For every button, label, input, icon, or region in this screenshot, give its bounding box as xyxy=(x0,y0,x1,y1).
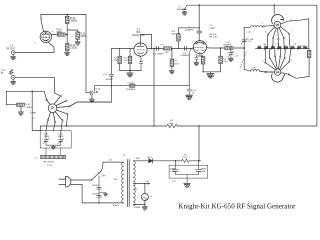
potentiometer R-14 xyxy=(10,69,13,74)
resistor R-6 xyxy=(178,28,199,34)
wire: S-1B stubs up to row xyxy=(265,49,291,62)
filter box C-20 xyxy=(169,165,208,178)
ground under R-11 xyxy=(77,39,79,41)
svg-text:750MMFD: 750MMFD xyxy=(223,45,232,47)
node: filter taps xyxy=(175,160,177,162)
ground grid leak xyxy=(186,95,193,99)
capacitor C-13A xyxy=(130,84,135,87)
AC plug xyxy=(66,176,71,187)
AF jack node bars xyxy=(90,91,92,95)
tube V-2 grids xyxy=(195,46,204,48)
resistor on row end xyxy=(307,50,311,57)
S-2 spoke tip circles xyxy=(46,99,48,101)
resistor R-2 zigzag xyxy=(167,124,178,127)
node: C-12 ground wire crossing xyxy=(111,85,113,87)
ground under J-2 xyxy=(12,79,14,81)
svg-text:.047MFD: .047MFD xyxy=(92,193,100,195)
diode SE-1 xyxy=(149,159,153,163)
wire: rail to B+ node xyxy=(198,126,200,161)
ground under J-1 xyxy=(12,55,14,57)
grid return vertical xyxy=(189,48,193,86)
trimmer C-17A xyxy=(242,40,246,42)
svg-text:33KΩ: 33KΩ xyxy=(80,36,86,38)
svg-text:1: 1 xyxy=(291,19,292,21)
wire: grid to column xyxy=(51,34,67,36)
ground cathode cap xyxy=(194,62,199,65)
wire: cathode bottom xyxy=(120,70,141,72)
wire: line bottom xyxy=(71,184,124,203)
svg-text:.005MFD: .005MFD xyxy=(105,79,114,81)
svg-text:RED: RED xyxy=(136,158,141,160)
svg-text:RF OSC: RF OSC xyxy=(209,37,218,39)
svg-text:2200Ω: 2200Ω xyxy=(70,48,77,50)
wire: box to L-1 xyxy=(46,148,61,155)
wire: S-1A output right xyxy=(288,19,309,49)
svg-text:.047MFD: .047MFD xyxy=(92,185,100,187)
ground under R-15 xyxy=(20,106,22,111)
rotary switch S-2 xyxy=(48,104,57,113)
svg-text:3900Ω: 3900Ω xyxy=(70,21,77,23)
S-1B spokes xyxy=(266,57,289,74)
svg-text:1: 1 xyxy=(192,41,193,43)
svg-text:RF OUT: RF OUT xyxy=(7,48,16,50)
ground under R-7 xyxy=(169,71,174,74)
wire: R column xyxy=(67,15,78,44)
coil L-4C xyxy=(250,26,262,28)
svg-text:YEL: YEL xyxy=(134,189,137,191)
svg-text:2: 2 xyxy=(262,23,263,25)
capacitor C-6 xyxy=(156,46,158,50)
svg-text:1-2 B: 1-2 B xyxy=(47,165,52,167)
wire: spoke stubs down to row xyxy=(267,35,290,49)
resistor R-1 zigzag xyxy=(182,159,190,162)
jack J-2 xyxy=(11,75,15,79)
resistor R-12 xyxy=(65,44,69,51)
big ground xyxy=(210,72,212,74)
wire: line top xyxy=(71,179,91,181)
svg-text:C-20B: C-20B xyxy=(200,171,206,173)
wire: to S-1B right xyxy=(289,75,310,79)
resistor R-9 xyxy=(220,48,222,56)
svg-text:R-11: R-11 xyxy=(80,33,86,35)
wire: rectifier output xyxy=(133,160,200,162)
svg-text:100MMFD: 100MMFD xyxy=(185,29,194,31)
svg-text:470K: 470K xyxy=(171,34,176,36)
svg-text:6C4: 6C4 xyxy=(136,32,141,34)
coils L-4A..F on row xyxy=(257,46,307,49)
trimmer C-16 xyxy=(229,48,233,58)
wire: caps to ground xyxy=(176,175,199,184)
svg-text:C-13-A: C-13-A xyxy=(127,81,134,84)
svg-text:S-2: S-2 xyxy=(51,108,54,110)
wire: S-1B left lead xyxy=(266,71,274,73)
ground under AF jack xyxy=(91,95,93,99)
wire: rail tap to audio B+ xyxy=(153,48,155,126)
coil L-1 hatched bar xyxy=(41,155,66,158)
svg-text:Knight-Kit KG-650 RF Signal Ge: Knight-Kit KG-650 RF Signal Generator xyxy=(179,204,297,211)
svg-text:MOD &: MOD & xyxy=(209,34,217,36)
transformer T-1 secondary xyxy=(133,161,135,206)
transformer core xyxy=(128,160,130,207)
tube V-1 envelope xyxy=(134,43,147,56)
ground under trimmer xyxy=(228,58,233,61)
svg-text:C-6 .05MFD: C-6 .05MFD xyxy=(153,53,164,55)
wire: long vertical to AF jack xyxy=(86,15,90,93)
resistor R-11 xyxy=(76,32,80,39)
capacitor C-9 on B+ drop xyxy=(197,5,202,41)
svg-text:8: 8 xyxy=(291,60,292,62)
svg-text:L-5A: L-5A xyxy=(251,67,256,70)
tube V-1 grid xyxy=(137,49,144,51)
variable capacitor C-1A xyxy=(59,131,63,146)
S-2 spokes xyxy=(47,97,68,122)
S-1B spoke tips xyxy=(265,62,266,63)
tube V-2B envelope xyxy=(40,31,51,42)
svg-text:L-4B: L-4B xyxy=(276,43,279,45)
S-1A spokes xyxy=(264,21,288,38)
svg-text:6: 6 xyxy=(206,41,207,43)
wire: spoke to C-12 line xyxy=(70,102,112,106)
row junction dots xyxy=(264,48,266,50)
resistor R-7 xyxy=(171,48,173,59)
resistor R-3 15K xyxy=(164,47,172,50)
coil row baseline xyxy=(255,48,308,50)
svg-text:1 MEG: 1 MEG xyxy=(25,107,32,109)
wire: plate to rail xyxy=(41,15,44,32)
resistor R-13 xyxy=(65,16,69,23)
svg-text:L-1: L-1 xyxy=(35,158,38,160)
svg-text:68KΩ: 68KΩ xyxy=(57,32,63,34)
svg-text:5-25: 5-25 xyxy=(248,41,252,43)
capacitor grid leak xyxy=(187,86,192,95)
svg-text:COMP: COMP xyxy=(30,112,37,114)
tube V-2 envelope xyxy=(193,41,206,54)
jack J-1 xyxy=(11,51,15,55)
tube V-2 cathodes xyxy=(195,49,204,52)
wire: J-2 to switch feed xyxy=(15,77,60,95)
capacitor V-1 cathode xyxy=(139,55,143,71)
svg-text:C-16: C-16 xyxy=(234,55,238,57)
wire: V-2 right plate lead xyxy=(207,47,225,49)
ground under V-1 cathode xyxy=(129,71,131,73)
switch S-3 xyxy=(91,173,98,180)
ground under filter xyxy=(184,183,191,187)
svg-text:R-12: R-12 xyxy=(70,45,76,47)
node: rail junction xyxy=(66,14,68,16)
svg-text:BLACK: BLACK xyxy=(113,204,120,207)
tube V-2B cathode xyxy=(43,39,48,42)
rotary switch S-1B xyxy=(275,69,281,75)
svg-text:750MMFD: 750MMFD xyxy=(180,55,189,57)
wire: C-11 to right vertical xyxy=(233,47,244,49)
wire: spoke to B+ rail xyxy=(67,115,68,126)
svg-text:C-20A: C-20A xyxy=(170,170,176,173)
tube V-2B plate xyxy=(42,31,49,34)
ground in box xyxy=(51,146,56,149)
wire: rotor to rail xyxy=(273,5,275,13)
svg-text:GREEN: GREEN xyxy=(134,207,141,209)
S-1B rotor arc xyxy=(272,74,285,82)
wire: L-4 top link xyxy=(244,26,250,28)
resistor R-16 grid horizontal xyxy=(57,33,65,36)
variable capacitor C-1B xyxy=(44,131,48,146)
tube V-1 plate xyxy=(137,43,144,46)
svg-text:3: 3 xyxy=(265,31,266,33)
svg-text:.5MFD: .5MFD xyxy=(57,136,64,138)
tube V-2 plates xyxy=(195,41,205,44)
wire: comp vertical to tuning box xyxy=(32,91,40,130)
transformer T-1 primary xyxy=(122,162,124,203)
svg-text:L-4E: L-4E xyxy=(300,45,303,47)
rotary switch S-1A rotor arc xyxy=(272,14,284,23)
capacitor C-11 xyxy=(225,47,233,50)
svg-text:3: 3 xyxy=(201,55,202,57)
wire: heater tap xyxy=(133,183,149,185)
B+ distribution rail xyxy=(40,125,317,127)
wire: L-5 link xyxy=(244,69,251,71)
wire: top-left B+ rail xyxy=(41,14,86,16)
resistor R-5 xyxy=(129,48,131,56)
svg-text:AUDIO OSC: AUDIO OSC xyxy=(132,34,145,37)
S-1A spoke tips xyxy=(263,25,265,27)
svg-text:1000MMFD: 1000MMFD xyxy=(177,9,188,11)
svg-text:12AT7: 12AT7 xyxy=(209,27,216,30)
tube V-2B grid xyxy=(43,36,50,38)
svg-text:V-2B: V-2B xyxy=(43,37,48,39)
ground under R-12 xyxy=(66,51,68,52)
gang dashed link xyxy=(240,52,247,69)
wire: rail to box xyxy=(40,126,41,131)
wire: spokes to tuning box xyxy=(46,121,62,131)
wire: coil to S-1B xyxy=(260,70,275,73)
svg-text:15K: 15K xyxy=(165,52,169,54)
resistor V-2 cathode xyxy=(200,55,203,58)
wire: cathode bottom xyxy=(203,71,221,73)
wire: top B+ rail to right edge xyxy=(187,5,317,126)
wire: coil to S-1A xyxy=(261,26,264,29)
line bypass caps C-18 xyxy=(98,176,100,203)
wire: caps common xyxy=(46,145,61,146)
svg-text:R-13: R-13 xyxy=(70,18,76,20)
ground between caps xyxy=(99,192,106,193)
rotary switch S-1A xyxy=(274,21,281,28)
wire: lamp to ground xyxy=(133,201,145,205)
tuning capacitor box C-1 xyxy=(40,131,71,148)
svg-text:.5MFD: .5MFD xyxy=(43,136,50,138)
svg-text:7: 7 xyxy=(291,31,292,33)
svg-text:2.7K: 2.7K xyxy=(183,157,188,159)
wire: comp net xyxy=(6,91,46,104)
feedthrough cap L-7 xyxy=(183,5,187,12)
wire: V-1 feedback loop xyxy=(141,34,152,48)
svg-text:470MMFD: 470MMFD xyxy=(126,89,136,91)
svg-text:L-4C: L-4C xyxy=(247,31,252,33)
node: rail junctions xyxy=(66,125,68,127)
wire: V-1 grid line xyxy=(112,47,194,49)
svg-text:2: 2 xyxy=(263,60,264,62)
svg-text:AF CHOKE: AF CHOKE xyxy=(44,161,55,164)
node xyxy=(153,48,155,50)
V-2 cathode network xyxy=(195,52,200,62)
wire: cathode to J-1 xyxy=(15,42,54,53)
capacitor C-20B xyxy=(195,161,201,175)
resistor R-15 xyxy=(17,103,25,106)
coil L-5A xyxy=(251,70,260,72)
resistor R-4 xyxy=(119,48,121,56)
right vertical (osc tank) xyxy=(243,27,245,69)
wire: ground return xyxy=(94,86,189,91)
pilot lamp I-1 xyxy=(144,184,146,194)
tube V-1 cathode xyxy=(137,53,143,54)
svg-text:8: 8 xyxy=(196,54,197,56)
capacitor C-12 xyxy=(70,48,114,106)
capacitor C-20A xyxy=(172,161,178,175)
capacitor C-8 xyxy=(185,46,187,50)
